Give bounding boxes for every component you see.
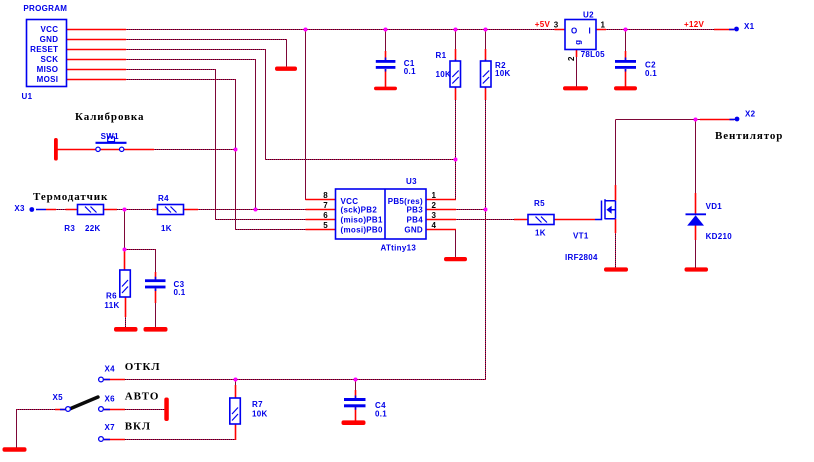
svg-text:ВКЛ: ВКЛ (125, 420, 151, 432)
svg-text:(miso)PB1: (miso)PB1 (341, 215, 384, 224)
svg-text:C4: C4 (375, 401, 386, 410)
svg-text:1K: 1K (535, 229, 546, 238)
svg-text:g: g (573, 40, 582, 45)
svg-text:8: 8 (323, 191, 328, 200)
svg-text:0.1: 0.1 (375, 410, 387, 419)
svg-text:0.1: 0.1 (645, 69, 657, 78)
svg-text:10K: 10K (252, 410, 268, 419)
svg-text:Калибровка: Калибровка (75, 111, 144, 123)
svg-text:0.1: 0.1 (174, 288, 186, 297)
svg-text:2: 2 (432, 201, 437, 210)
svg-text:U3: U3 (406, 177, 417, 186)
svg-text:SW1: SW1 (101, 132, 119, 141)
svg-text:X4: X4 (105, 365, 116, 374)
svg-text:GND: GND (40, 35, 59, 44)
svg-text:(sck)PB2: (sck)PB2 (341, 205, 378, 214)
svg-text:I: I (589, 26, 592, 35)
svg-text:MOSI: MOSI (37, 75, 59, 84)
svg-text:+5V: +5V (535, 20, 551, 29)
svg-text:АВТО: АВТО (125, 391, 159, 403)
svg-text:X5: X5 (53, 393, 64, 402)
svg-text:KD210: KD210 (706, 232, 733, 241)
svg-text:(mosi)PB0: (mosi)PB0 (341, 225, 384, 234)
svg-text:0.1: 0.1 (404, 67, 416, 76)
svg-text:SCK: SCK (41, 55, 59, 64)
svg-text:ATtiny13: ATtiny13 (381, 243, 417, 252)
svg-text:O: O (571, 26, 578, 35)
svg-text:5: 5 (323, 221, 328, 230)
svg-text:U2: U2 (583, 11, 594, 20)
svg-text:4: 4 (432, 221, 437, 230)
svg-text:Вентилятор: Вентилятор (715, 130, 783, 142)
svg-text:78L05: 78L05 (581, 50, 605, 59)
svg-text:1: 1 (601, 21, 606, 30)
svg-text:X2: X2 (745, 110, 756, 119)
svg-text:R5: R5 (534, 199, 545, 208)
svg-text:VD1: VD1 (706, 202, 723, 211)
svg-text:X6: X6 (105, 395, 116, 404)
svg-text:22K: 22K (85, 224, 101, 233)
svg-text:R4: R4 (158, 194, 169, 203)
svg-text:U1: U1 (22, 92, 33, 101)
svg-text:1: 1 (432, 191, 437, 200)
svg-text:6: 6 (323, 211, 328, 220)
svg-text:+12V: +12V (684, 20, 704, 29)
svg-text:3: 3 (554, 21, 559, 30)
svg-text:PB4: PB4 (407, 215, 424, 224)
svg-text:PROGRAM: PROGRAM (23, 4, 67, 13)
svg-text:1K: 1K (161, 224, 172, 233)
svg-text:ОТКЛ: ОТКЛ (125, 361, 161, 373)
svg-text:R3: R3 (64, 224, 75, 233)
svg-text:PB3: PB3 (407, 205, 424, 214)
svg-text:GND: GND (404, 225, 423, 234)
svg-text:R1: R1 (436, 51, 447, 60)
svg-text:R6: R6 (106, 292, 117, 301)
svg-text:3: 3 (432, 211, 437, 220)
svg-text:X3: X3 (14, 204, 25, 213)
svg-text:7: 7 (323, 201, 328, 210)
svg-text:Термодатчик: Термодатчик (33, 191, 108, 203)
svg-text:R7: R7 (252, 400, 263, 409)
svg-text:VT1: VT1 (573, 231, 589, 240)
svg-text:VCC: VCC (41, 25, 59, 34)
svg-text:MISO: MISO (37, 65, 59, 74)
svg-text:RESET: RESET (30, 45, 58, 54)
svg-text:2: 2 (567, 56, 576, 61)
svg-text:11K: 11K (104, 301, 119, 310)
svg-text:X1: X1 (744, 22, 755, 31)
svg-text:IRF2804: IRF2804 (565, 253, 598, 262)
svg-text:10K: 10K (495, 69, 511, 78)
svg-text:10K: 10K (436, 70, 452, 79)
svg-text:X7: X7 (105, 423, 116, 432)
